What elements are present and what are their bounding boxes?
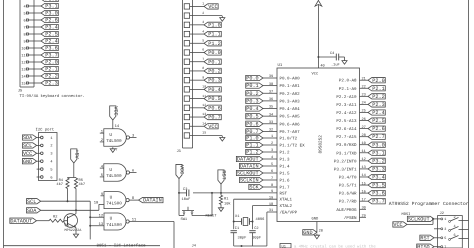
svg-text:P2.3: P2.3 — [372, 102, 384, 108]
connector J5 pin 4 (P3.1) — [24, 3, 59, 9]
svg-text:9: 9 — [271, 189, 273, 194]
svg-text:ALE/PROG: ALE/PROG — [336, 207, 357, 213]
svg-text:P0.7: P0.7 — [208, 115, 220, 121]
svg-text:P0.2-A02: P0.2-A02 — [280, 92, 301, 97]
svg-text:C1: C1 — [235, 226, 240, 231]
net flag DATAIN — [139, 197, 164, 203]
svg-text:P2.4: P2.4 — [45, 39, 57, 45]
label 8051 I2C interface title — [97, 243, 147, 248]
svg-text:8: 8 — [24, 32, 26, 37]
svg-text:GND: GND — [303, 230, 312, 236]
wire R4 to SCL — [67, 189, 69, 202]
svg-text:J2: J2 — [440, 211, 444, 216]
svg-text:23: 23 — [362, 93, 366, 98]
wire frame right vertical rail — [468, 0, 470, 248]
svg-text:P1.6: P1.6 — [280, 179, 291, 184]
connector J2 pin 3 — [441, 227, 447, 232]
node R5-SDA junction — [75, 209, 77, 211]
wire EA down — [267, 212, 277, 246]
connector J1 pin 11 (P0.5) — [184, 94, 221, 102]
svg-text:12: 12 — [362, 157, 366, 162]
wire RST flag stub — [220, 184, 222, 193]
svg-text:U: U — [110, 217, 113, 222]
connector J2 pin 6 — [449, 233, 469, 240]
svg-text:VCC: VCC — [23, 151, 32, 157]
svg-text:P0.0: P0.0 — [246, 76, 258, 82]
svg-text:27: 27 — [362, 125, 366, 130]
svg-text:P0.3: P0.3 — [246, 98, 258, 104]
svg-text:3: 3 — [202, 20, 204, 24]
svg-text:J5: J5 — [18, 88, 23, 93]
wire DATAOUT to R2 — [37, 220, 50, 222]
svg-text:13: 13 — [99, 222, 104, 227]
svg-text:12: 12 — [99, 214, 104, 219]
connector J1 pin 9 (P0.3) — [184, 75, 221, 83]
svg-text:P2.0-A8: P2.0-A8 — [339, 79, 357, 84]
svg-text:2: 2 — [202, 11, 204, 15]
svg-text:P1.0: P1.0 — [246, 136, 258, 142]
svg-text:37: 37 — [269, 89, 273, 94]
svg-text:P3.3/INT1: P3.3/INT1 — [334, 166, 357, 172]
wire SW1 to RST — [192, 193, 212, 216]
svg-text:MISO: MISO — [417, 244, 429, 248]
connector J1 pin 10 (P0.4) — [184, 85, 221, 93]
svg-text:P3.2: P3.2 — [372, 158, 384, 164]
connector J2 pin 4 — [449, 224, 469, 231]
svg-text:U: U — [109, 133, 112, 138]
node gate D input 13 junction — [89, 225, 91, 227]
chip U1 pin 17 P3.7 — [339, 197, 385, 204]
svg-text:P3.5/T1: P3.5/T1 — [339, 183, 357, 189]
svg-text:7: 7 — [202, 57, 204, 61]
svg-text:P0.6: P0.6 — [208, 105, 220, 111]
svg-text:10k: 10k — [224, 202, 231, 207]
resistor R4 — [56, 178, 69, 189]
svg-text:P0.4: P0.4 — [208, 87, 220, 93]
svg-text:19: 19 — [269, 195, 273, 200]
net flag SCLKOUT to J2 — [407, 216, 441, 222]
svg-text:U: U — [110, 195, 113, 200]
svg-text:15: 15 — [362, 181, 366, 186]
connector J1 pin 13 (P0.7) — [184, 112, 221, 120]
svg-text:P1.5: P1.5 — [280, 172, 291, 177]
resistor R1 — [219, 193, 231, 207]
node crystal right — [252, 221, 254, 223]
svg-text:P2.3: P2.3 — [45, 81, 57, 87]
svg-text:U1: U1 — [278, 63, 283, 68]
svg-text:1: 1 — [202, 2, 204, 6]
connector J2 pin 1 — [441, 217, 447, 222]
svg-text:SCLKOUT: SCLKOUT — [237, 171, 259, 177]
wire frame left border — [3, 0, 5, 248]
svg-text:7: 7 — [115, 148, 117, 153]
wire R5 to SDA — [75, 189, 77, 211]
svg-text:RESET: RESET — [206, 213, 218, 218]
chip U1 pin 10 P3.0 — [336, 141, 385, 148]
connector J1 pin 6 (P0.0) — [184, 48, 221, 56]
svg-text:35: 35 — [269, 105, 273, 110]
connector J4 pin 3 (VCC) — [22, 151, 52, 157]
node C3 VCC junction — [178, 192, 180, 194]
svg-text:P1.7: P1.7 — [280, 186, 291, 191]
connector J4 pin 2 (SCL) — [22, 143, 52, 149]
capacitor C2 — [249, 226, 261, 241]
svg-text:28: 28 — [362, 133, 366, 138]
svg-text:J1: J1 — [177, 149, 182, 154]
svg-text:11: 11 — [132, 217, 137, 222]
svg-text:a 4MHz crystal can be used wit: a 4MHz crystal can be used with the — [294, 244, 376, 248]
svg-text:7: 7 — [24, 25, 26, 30]
net flag DATAOUT — [10, 218, 37, 224]
svg-text:U: U — [109, 168, 112, 173]
svg-text:1: 1 — [271, 134, 273, 139]
svg-text:18: 18 — [269, 202, 273, 207]
svg-text:P2.1: P2.1 — [45, 67, 57, 73]
connector J4 pin 6 — [37, 175, 53, 180]
svg-text:P2.5: P2.5 — [45, 32, 57, 38]
wire VCC to U5A pin 14 — [113, 120, 120, 129]
wire VCC to C4 — [318, 56, 336, 58]
op-amp U5A 74LS00 gate — [100, 129, 137, 147]
wire SCL distribution vertical — [89, 201, 91, 239]
svg-text:5: 5 — [50, 167, 52, 172]
connector J2 pin 5 — [441, 236, 447, 241]
svg-text:P0.1: P0.1 — [246, 83, 258, 89]
chip U1 pin 2 P1.1/T2 EX — [246, 141, 305, 148]
svg-text:5: 5 — [271, 162, 273, 167]
svg-text:15: 15 — [202, 131, 206, 135]
chip U1 pin 33 P0.6 — [246, 120, 300, 127]
svg-text:89S8252: 89S8252 — [318, 135, 323, 154]
chip U1 pin 23 P2.2 — [336, 93, 385, 100]
svg-text:C4: C4 — [330, 51, 334, 56]
connector J5 pin 11 (P3.7) — [21, 52, 58, 58]
svg-text:26: 26 — [362, 117, 366, 122]
node SW1 RST junction — [211, 192, 213, 194]
svg-text:P3.1: P3.1 — [45, 4, 57, 10]
svg-text:Q1: Q1 — [65, 223, 70, 228]
capacitor C3 — [182, 187, 191, 202]
svg-text:X1: X1 — [235, 214, 240, 219]
capacitor C4 — [330, 51, 340, 67]
wire SDA — [41, 209, 99, 211]
svg-text:P3.1/TXD: P3.1/TXD — [336, 150, 357, 156]
power VCC symbol top — [315, 0, 322, 7]
node VCC-C4 junction — [317, 56, 319, 58]
svg-text:30pF: 30pF — [238, 236, 247, 241]
svg-text:P1.0/T2: P1.0/T2 — [280, 136, 298, 142]
wire U1 pin20 GND — [317, 222, 323, 234]
connector J1 pin 4 (P1.1) — [184, 29, 221, 37]
connector J1 body — [183, 0, 193, 148]
svg-text:10: 10 — [362, 141, 366, 146]
ground below R1 — [218, 206, 223, 211]
svg-text:8051 - I2C interface: 8051 - I2C interface — [97, 243, 147, 248]
label RESET — [206, 213, 218, 218]
chip U1 pin 5 P1.4 — [239, 162, 290, 169]
svg-text:P3.5: P3.5 — [372, 183, 384, 189]
svg-text:3: 3 — [50, 152, 52, 157]
node RST R1 junction — [220, 192, 222, 194]
chip U1 pin 24 P2.3 — [336, 101, 385, 108]
chip U1 pin 39 P0.0 — [246, 74, 300, 81]
resistor R2 — [49, 215, 64, 223]
svg-text:P1.1: P1.1 — [246, 143, 258, 149]
net flag RST vertical — [218, 170, 227, 184]
svg-text:2: 2 — [454, 215, 456, 220]
svg-text:2: 2 — [271, 141, 273, 146]
svg-text:2: 2 — [101, 138, 104, 143]
chip U1 pin 38 P0.1 — [246, 82, 300, 89]
net flag MISO to J2 — [417, 244, 442, 248]
chip U1 pin 19 XTAL1 — [269, 195, 293, 202]
svg-text:32: 32 — [269, 128, 273, 133]
svg-text:1: 1 — [50, 136, 52, 141]
svg-text:14: 14 — [21, 74, 25, 79]
svg-text:30pF: 30pF — [252, 236, 261, 241]
wire SCL — [41, 200, 90, 202]
svg-text:6: 6 — [271, 169, 273, 174]
chip U1 pin 35 P0.4 — [246, 105, 300, 112]
wire gate U5D output down — [173, 222, 175, 248]
connector J1 pin 15 (GND) — [184, 131, 225, 141]
connector J1 pin 14 (VCC) — [184, 121, 218, 129]
svg-text:P0.7-A07: P0.7-A07 — [280, 130, 301, 135]
svg-text:22: 22 — [362, 84, 366, 89]
svg-text:P2.3-A11: P2.3-A11 — [336, 103, 357, 108]
svg-text:P2.7-A15: P2.7-A15 — [336, 135, 357, 140]
svg-text:P3.0/RXD: P3.0/RXD — [336, 142, 357, 148]
svg-text:P0.3-A03: P0.3-A03 — [280, 99, 301, 104]
ground below Q1 — [73, 233, 78, 238]
connector J5 body — [20, 0, 34, 87]
svg-text:RST: RST — [420, 235, 429, 241]
transistor Q1 MPS2222A — [64, 210, 82, 233]
svg-text:SDA: SDA — [27, 208, 37, 214]
svg-text:5: 5 — [24, 11, 26, 16]
svg-text:5: 5 — [444, 236, 446, 241]
svg-text:VCC: VCC — [208, 124, 217, 130]
connector J1 pin 3 (P1.0) — [184, 20, 221, 28]
wire C4 to ground — [339, 57, 345, 59]
svg-text:6: 6 — [50, 175, 52, 180]
svg-text:P0.4-A04: P0.4-A04 — [280, 107, 301, 112]
svg-text:5: 5 — [202, 38, 204, 42]
svg-text:6: 6 — [202, 48, 204, 52]
svg-text:P0.0: P0.0 — [208, 50, 220, 56]
svg-text:10uF: 10uF — [182, 197, 191, 202]
connector J1 pin 1 (VCC) — [184, 2, 218, 10]
svg-text:DATAOUT: DATAOUT — [237, 157, 259, 163]
chip U1 pin 7 P1.6 — [239, 176, 290, 183]
chip U1 pin 26 P2.5 — [336, 117, 385, 124]
connector J1 pin 7 (P0.1) — [184, 57, 221, 65]
svg-text:SCLKIN: SCLKIN — [240, 178, 259, 184]
op-amp U5C 74LS00 gate — [94, 192, 139, 209]
node gate D input 12 junction — [89, 216, 91, 218]
label J4 small designator — [192, 244, 197, 248]
svg-text:4k7: 4k7 — [79, 182, 86, 187]
svg-text:P0.7: P0.7 — [246, 129, 258, 135]
connector J4 pin 4 (GND) — [22, 159, 52, 165]
svg-text:13: 13 — [21, 67, 25, 72]
svg-text:P3.7: P3.7 — [372, 199, 384, 205]
svg-text:4k7: 4k7 — [56, 182, 63, 187]
svg-text:P2.4-A12: P2.4-A12 — [336, 111, 357, 116]
chip U1 pin 12 P3.2 — [334, 157, 385, 164]
chip U1 pin 30 ALE — [336, 206, 366, 213]
svg-text:TI-99/4A keyboard connector.: TI-99/4A keyboard connector. — [20, 94, 85, 99]
svg-text:3: 3 — [444, 227, 446, 232]
svg-text:VCC: VCC — [112, 106, 118, 115]
svg-text:74LS00: 74LS00 — [106, 202, 122, 207]
power flag +5V above R4 R5 — [71, 149, 80, 163]
chip U1 pin 22 P2.1 — [339, 84, 385, 91]
label U1 part number — [318, 135, 323, 154]
chip U1 pin 34 P0.5 — [246, 112, 300, 119]
ground below U1 — [314, 234, 319, 239]
chip U1 pin 9 RST wire — [193, 189, 288, 196]
svg-text:P0.5: P0.5 — [246, 114, 258, 120]
svg-text:P1.2: P1.2 — [246, 150, 258, 156]
power flag VCC above C3 — [176, 164, 185, 178]
svg-text:P0.1: P0.1 — [208, 59, 220, 65]
svg-text:P3.4/T0: P3.4/T0 — [339, 174, 357, 180]
svg-text:74LS00: 74LS00 — [106, 223, 122, 228]
svg-text:P2.1-A9: P2.1-A9 — [339, 87, 357, 92]
wire +5V to resistor tops — [68, 163, 77, 178]
wire C3 left node — [179, 179, 187, 216]
node crystal left — [233, 221, 235, 223]
label U1 GND — [312, 216, 320, 221]
svg-text:P3.4: P3.4 — [45, 25, 57, 31]
label bottom cut box — [280, 244, 291, 248]
svg-text:36: 36 — [269, 97, 273, 102]
svg-text:4: 4 — [202, 29, 204, 33]
chip U1 pin 3 P1.2 — [246, 148, 290, 155]
svg-text:P2.6-A14: P2.6-A14 — [336, 127, 357, 132]
power flag VCC above gate U5A — [110, 106, 119, 120]
svg-text:P3.0: P3.0 — [45, 11, 57, 17]
svg-text:P1.1: P1.1 — [208, 32, 220, 38]
svg-text:AT89S52 Programmer Connector: AT89S52 Programmer Connector — [389, 201, 469, 207]
svg-text:6: 6 — [24, 18, 26, 23]
svg-text:39: 39 — [269, 74, 273, 79]
svg-text:7: 7 — [271, 176, 273, 181]
svg-text:GND: GND — [23, 159, 32, 165]
svg-text:P0.0-A00: P0.0-A00 — [280, 77, 301, 82]
svg-text:1: 1 — [101, 129, 104, 134]
svg-text:R1: R1 — [224, 197, 229, 202]
svg-text:DATAIN: DATAIN — [240, 164, 259, 170]
svg-text:17: 17 — [362, 197, 366, 202]
wire XTAL1 — [234, 199, 277, 229]
chip U1 pin 32 P0.7 — [246, 128, 300, 135]
label MOSI — [402, 212, 411, 217]
svg-text:VCC: VCC — [393, 222, 402, 228]
net flag SCL — [27, 199, 41, 205]
connector J2 pin 7 — [441, 245, 447, 248]
svg-text:6: 6 — [454, 233, 456, 238]
svg-text:16: 16 — [362, 189, 366, 194]
svg-text:DATAIN: DATAIN — [143, 198, 162, 204]
ground right of C4 — [342, 59, 347, 64]
svg-text:J4: J4 — [192, 244, 197, 248]
svg-text:P1.3: P1.3 — [280, 158, 291, 163]
svg-text:3: 3 — [271, 148, 273, 153]
chip U1 pin 16 P3.6 — [339, 189, 385, 196]
svg-text:P2.7: P2.7 — [372, 134, 384, 140]
connector J5 pin 7 (P3.4) — [24, 24, 59, 30]
connector J2 pin 2 — [449, 215, 469, 222]
connector J5 pin 12 (P2.0) — [21, 59, 58, 65]
connector J5 pin 5 (P3.0) — [24, 10, 59, 16]
op-amp U5B 74LS00 gate — [100, 164, 137, 182]
connector J5 pin 13 (P2.1) — [21, 66, 58, 72]
connector J5 pin 3 (P3.5) — [41, 0, 58, 3]
svg-text:P1.2: P1.2 — [208, 41, 220, 47]
node gnd rail junction — [241, 245, 243, 247]
svg-text:P0.3: P0.3 — [208, 78, 220, 84]
svg-text:10: 10 — [21, 46, 25, 51]
svg-text:4: 4 — [271, 155, 273, 160]
chip U1 pin 29 PSEN — [344, 214, 366, 221]
chip U1 pin 31 EA — [269, 208, 298, 215]
capacitor C1 — [231, 226, 247, 241]
connector J2 body — [438, 211, 463, 248]
connector J2 pin 3 stub — [434, 228, 442, 230]
svg-text:1: 1 — [444, 217, 446, 222]
svg-text:31: 31 — [269, 208, 273, 213]
wire XTAL2 — [253, 206, 278, 230]
svg-text:4: 4 — [50, 160, 52, 165]
svg-text:15: 15 — [21, 81, 25, 86]
connector J4 pin 5 — [37, 167, 53, 172]
svg-text:14: 14 — [362, 173, 366, 178]
svg-text:P0.6-A06: P0.6-A06 — [280, 122, 301, 127]
chip U1 pin 18 XTAL2 — [269, 202, 293, 209]
svg-text:4096: 4096 — [256, 217, 265, 222]
svg-text:P0.2: P0.2 — [208, 68, 220, 74]
chip U1 pin 21 P2.0 — [339, 76, 385, 83]
svg-text:34: 34 — [269, 112, 273, 117]
connector J1 pin 8 (P0.2) — [184, 66, 221, 74]
svg-text:MPS2222A: MPS2222A — [65, 228, 83, 233]
svg-text:P3.2/INT0: P3.2/INT0 — [334, 158, 357, 164]
svg-text:/EA/VPP: /EA/VPP — [280, 210, 298, 216]
svg-text:P3.6/WR: P3.6/WR — [339, 191, 357, 197]
label J5 designator — [18, 88, 23, 93]
resistor R5 — [74, 178, 85, 189]
svg-text:GND: GND — [312, 216, 320, 221]
svg-text:P0.6: P0.6 — [246, 121, 258, 127]
svg-text:74LS00: 74LS00 — [106, 174, 122, 179]
svg-text:P2.2-A10: P2.2-A10 — [336, 95, 357, 100]
svg-text:VCC: VCC — [179, 165, 185, 174]
svg-text:4: 4 — [101, 164, 104, 169]
svg-text:P2.2: P2.2 — [45, 74, 57, 80]
switch SW1 reset — [179, 207, 194, 222]
chip U1 pin 15 P3.5 — [339, 181, 385, 188]
connector J5 pin 8 (P2.5) — [24, 31, 59, 37]
connector J1 pin 5 (P1.2) — [184, 38, 221, 46]
svg-text:C2: C2 — [254, 226, 258, 231]
wire VCC down to U1 pin40 — [318, 7, 324, 69]
svg-text:11: 11 — [21, 53, 25, 58]
chip U1 pin 13 P3.3 — [334, 165, 385, 172]
svg-text:8: 8 — [271, 183, 273, 188]
svg-text:9: 9 — [101, 192, 104, 197]
